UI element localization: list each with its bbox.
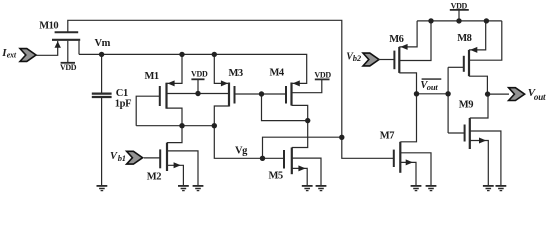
VDD symbol between M1 and M3 [191, 79, 204, 93]
node Vm junction at C1 [99, 52, 104, 57]
wire: Vm rail from M10 drain to M4 source [79, 54, 307, 83]
ground under M5 bulk [316, 186, 327, 191]
node VDD rail junction at M8 source [484, 18, 489, 23]
svg-text:Vg: Vg [235, 145, 248, 156]
wire: junction down to M7 gate [342, 137, 394, 158]
input arrow Vb1 [127, 151, 143, 164]
ground under C1 [97, 186, 108, 191]
node Vout-bar junction at M6/M7 drains [414, 91, 419, 96]
VDD bar right of M4 [315, 78, 330, 80]
capacitor C1 [92, 54, 112, 185]
ground under M7 source [411, 186, 422, 191]
svg-text:M3: M3 [229, 68, 243, 79]
node Vout-bar junction at M8/M9 gates [445, 91, 450, 96]
svg-text:VDD: VDD [451, 2, 468, 11]
transistor M7 [394, 94, 431, 185]
output arrow Vout [509, 88, 525, 101]
wire: Vg rail [214, 126, 284, 159]
node junction M3/M4 gates [259, 91, 264, 96]
svg-text:1pF: 1pF [115, 98, 131, 109]
svg-text:b2: b2 [353, 53, 362, 63]
wire: gates junction down and right to M4/M5 drains [262, 94, 308, 121]
svg-text:b1: b1 [118, 153, 126, 163]
wire: VDD rail end down to M8 bulk [469, 21, 502, 60]
wire: M10 gate to top rail, down right side to Vg net junction [68, 20, 342, 137]
node VDD rail junction at supply stem [456, 18, 461, 23]
svg-text:VDD: VDD [60, 63, 77, 72]
wire: M4 drain junction down to M5 drain [292, 121, 308, 148]
svg-text:VDD: VDD [314, 70, 331, 79]
wire: bulk rail M1-M3 with VDD tap [167, 93, 230, 95]
transistor M4 [286, 79, 322, 120]
svg-text:M2: M2 [147, 172, 161, 183]
wire: Vb2 to M6 gate [379, 59, 395, 61]
node junction M4 drain / M5 drain [305, 118, 310, 123]
svg-text:Vm: Vm [95, 38, 111, 49]
svg-text:M7: M7 [380, 130, 394, 141]
wire: M8/M9 gate vertical [447, 67, 449, 133]
node Vg junction at M5 gate [260, 156, 265, 161]
transistor M3 [214, 54, 234, 125]
wire: Vg overpass to right junction [263, 137, 342, 158]
transistor M1 [136, 54, 182, 125]
node VDD rail junction at M6 bulk [428, 18, 433, 23]
svg-text:M6: M6 [389, 34, 403, 45]
svg-text:M10: M10 [39, 20, 58, 31]
node junction M1/M2 drains [179, 123, 184, 128]
transistor M8 [448, 21, 487, 94]
node Vm junction at M3 source [212, 52, 217, 57]
svg-text:out: out [534, 92, 546, 102]
transistor M10 [36, 32, 80, 63]
wire: M3 gate to M4 gate [235, 93, 287, 95]
transistor M5 [284, 148, 321, 186]
transistor M2 [144, 126, 198, 185]
node Vm junction at M1 source [179, 52, 184, 57]
wire: VDD rail top right [417, 20, 502, 22]
wire: Vout-bar rail [417, 93, 449, 95]
transistor M6 [394, 21, 431, 94]
transistor M9 [448, 94, 501, 185]
svg-text:M8: M8 [457, 33, 471, 44]
input arrow Vb2 [363, 53, 379, 66]
ground under M2 source [178, 186, 189, 191]
wire: Vout node to output arrow [488, 93, 509, 95]
node Vout junction at M8/M9 drains [485, 91, 490, 96]
ground under M9 bulk [496, 186, 507, 191]
VDD bar under M10 [61, 62, 75, 64]
svg-text:VDD: VDD [191, 70, 208, 79]
input arrow Iext [20, 49, 36, 62]
ground under M7 bulk [426, 186, 437, 191]
svg-text:M1: M1 [145, 71, 159, 82]
label Vout-bar [420, 79, 441, 92]
wire: gate/drain rail y=125.7 [136, 125, 214, 127]
node junction Vg net to M7/M10 gates [339, 135, 344, 140]
svg-text:M4: M4 [270, 68, 285, 79]
VDD symbol top right [450, 10, 469, 21]
node junction VDD tap to M1/M3 bulks [195, 91, 200, 96]
svg-text:M9: M9 [459, 99, 473, 110]
svg-text:out: out [427, 82, 439, 92]
ground under M9 source [483, 186, 494, 191]
ground under M5 source [302, 186, 313, 191]
svg-text:ext: ext [7, 50, 17, 59]
node junction M3 drain / Vg branch [212, 123, 217, 128]
svg-text:M5: M5 [269, 171, 283, 182]
ground under M2 bulk [193, 186, 204, 191]
